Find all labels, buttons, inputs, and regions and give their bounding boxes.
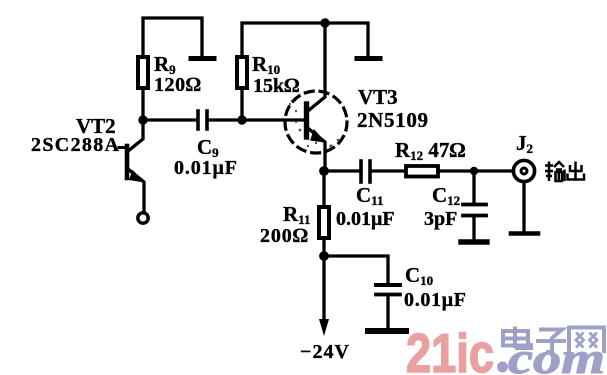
wire R9 bottom to node A [141,88,144,120]
wire R10 bottom to node B [240,88,243,120]
svg-text:C10: C10 [405,263,433,288]
emitter lead with arrow [128,169,144,211]
svg-text:−24V: −24V [300,341,350,363]
svg-text:0.01μF: 0.01μF [174,157,237,179]
ground bar under J2 [511,231,538,236]
wire node B to VT3 base [242,118,303,121]
wire C11 to R12 [372,169,406,172]
capacitor C9 [198,111,207,129]
子 [536,330,566,353]
watermark .com dot [497,362,508,373]
node D junction [470,167,478,175]
svg-text:120Ω: 120Ω [154,74,201,96]
svg-text:2SC288A: 2SC288A [31,134,120,156]
wire node A to C9 [143,118,196,121]
ground bar under C10 [368,328,406,334]
base stub [119,146,127,149]
emitter terminal circle [138,213,148,223]
supply terminal bar top-right [357,56,380,61]
出 [568,162,585,180]
node C junction (emitter node) [319,166,329,176]
svg-text:21ic: 21ic [406,322,494,375]
scan speckles near VT3 [289,103,339,148]
node top junction [320,18,329,27]
label shuchu (output) glyphs [545,162,584,182]
watermark dianziwang glyphs [503,327,604,354]
resistor R12 [406,166,438,177]
resistor R10 [237,57,247,88]
电 [503,327,531,349]
svg-text:15kΩ: 15kΩ [253,75,299,97]
wire node E down to -24V arrow [322,256,325,321]
svg-text:C12: C12 [432,183,460,208]
svg-text:R11: R11 [283,202,310,227]
ground bar under C12 [461,239,487,244]
wire C9 to node B [209,118,242,121]
supply terminal bar top-left [191,56,214,61]
wire R12 to J2 [438,169,513,172]
输 [545,162,565,182]
wire J2 down to ground [522,182,525,231]
connector J2 [511,160,538,233]
capacitor C12 [461,171,487,242]
wire node C down to R11 [322,171,325,207]
svg-text:VT3: VT3 [358,85,398,109]
svg-text:3pF: 3pF [424,208,457,230]
resistor R11 [319,207,329,238]
arrow -24V [319,319,329,336]
collector lead [128,120,143,151]
svg-text:0.01μF: 0.01μF [336,208,395,230]
emitter lead with arrow [309,129,325,171]
wire R11 bottom to node E [322,238,325,256]
transistor VT2 [119,120,148,223]
svg-text:2N5109: 2N5109 [357,108,428,132]
wire top-left loop from R9 top [143,18,202,57]
svg-text:200Ω: 200Ω [260,225,308,247]
svg-text:0.01μF: 0.01μF [404,289,466,311]
collector wire from top node [309,23,325,110]
svg-text:R10: R10 [252,52,280,77]
base bar [125,146,130,178]
wire top-right rail from R10 top [242,23,368,57]
node A junction [138,115,147,124]
svg-text:C11: C11 [356,183,383,208]
node B junction [237,115,246,124]
capacitor C10 [368,285,406,331]
svg-text:J2: J2 [516,131,533,156]
capacitor C11 [361,161,370,182]
transistor VT3 [285,23,347,171]
svg-text:R12 47Ω: R12 47Ω [395,138,466,163]
dashed circle around VT3 [285,91,347,153]
node E junction [319,251,329,261]
wire node E to C10 [324,256,388,282]
网 [569,328,604,354]
base bar [304,104,309,137]
resistor R9 [138,57,148,88]
wire node C to C11 [324,169,358,172]
